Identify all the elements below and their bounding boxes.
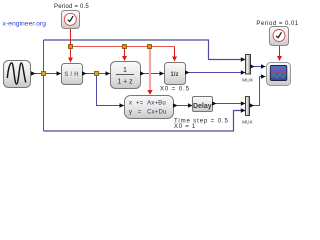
svg-text:Period = 0.5: Period = 0.5: [54, 4, 89, 10]
svg-text:X0 = 0.5: X0 = 0.5: [160, 86, 190, 92]
svg-text:X0 = 1: X0 = 1: [174, 124, 196, 130]
svg-text:Period = 0.01: Period = 0.01: [256, 21, 299, 27]
svg-text:MUX: MUX: [242, 120, 253, 126]
svg-text:MUX: MUX: [242, 78, 253, 84]
svg-text:x-engineer.org: x-engineer.org: [3, 21, 47, 28]
svg-text:1: 1: [123, 67, 127, 74]
svg-text:y = Cx+Du: y = Cx+Du: [129, 110, 167, 116]
svg-text:Delay: Delay: [193, 103, 212, 110]
svg-text:S / H: S / H: [64, 72, 78, 78]
svg-text:1 + z: 1 + z: [117, 79, 133, 86]
svg-text:x += Ax+Bu: x += Ax+Bu: [129, 101, 166, 107]
svg-text:1/z: 1/z: [170, 71, 178, 78]
